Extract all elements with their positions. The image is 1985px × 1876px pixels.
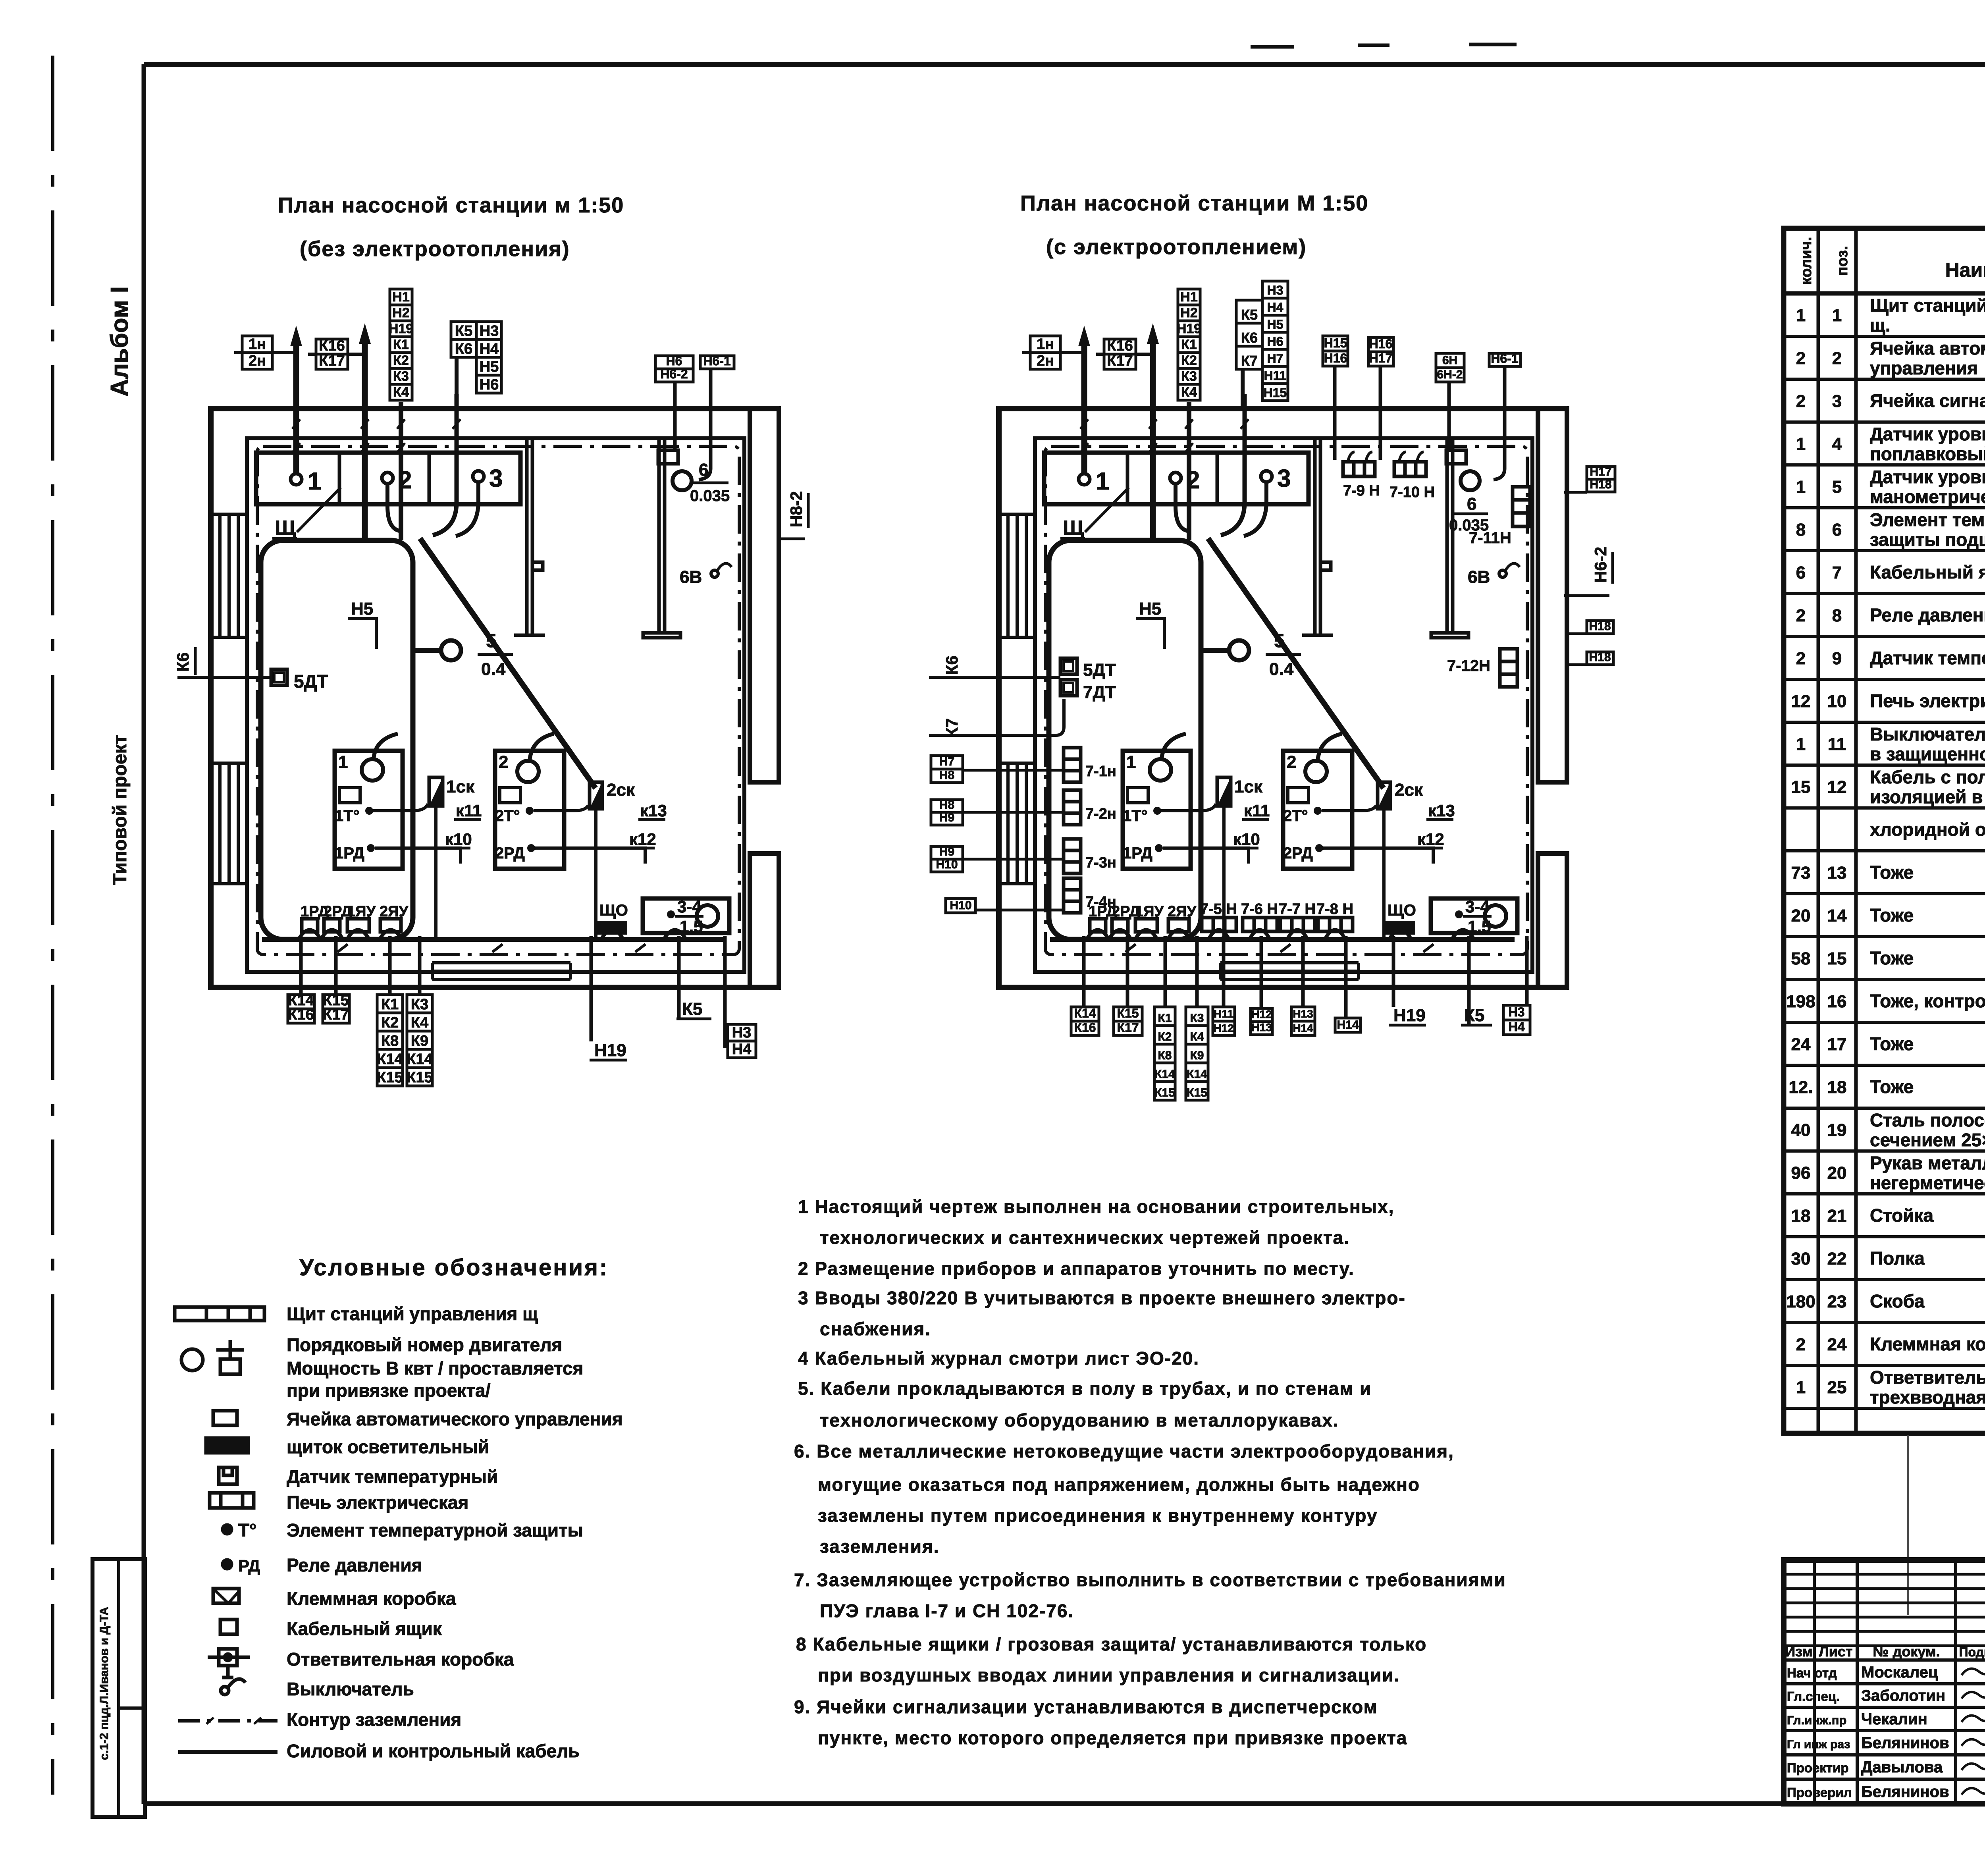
svg-text:14: 14 [1827,906,1847,925]
svg-text:5ДТ: 5ДТ [294,671,328,692]
svg-text:Чекалин: Чекалин [1861,1710,1927,1728]
svg-text:К6: К6 [942,656,961,675]
svg-text:заземлены путем присоединени: заземлены путем присоединения к внутренн… [818,1505,1378,1526]
svg-text:Н12: Н12 [1213,1022,1233,1034]
svg-text:Гл.инж.пр: Гл.инж.пр [1787,1713,1846,1727]
svg-text:Н18: Н18 [1589,620,1611,633]
svg-text:Изм: Изм [1785,1643,1813,1660]
svg-text:(с электроотоплением): (с электроотоплением) [1046,235,1307,259]
svg-text:технологических и сантехничес: технологических и сантехнических чертеже… [820,1227,1350,1248]
svg-text:К6: К6 [1241,330,1258,346]
svg-text:12.: 12. [1788,1078,1813,1097]
svg-text:К15: К15 [377,1069,403,1086]
bottom stack K3-K15 [407,995,432,1013]
svg-text:Датчик температурный: Датчик температурный [287,1466,498,1487]
svg-text:План насосной станции м 1:50: План насосной станции м 1:50 [278,193,624,217]
svg-text:К9: К9 [411,1033,428,1049]
svg-text:Условные обозначения:: Условные обозначения: [299,1255,609,1280]
svg-text:2: 2 [1796,649,1806,668]
heater 7-12H [1500,649,1517,687]
svg-text:План насосной станции М 1:50: План насосной станции М 1:50 [1020,191,1368,215]
svg-text:Н4: Н4 [1267,300,1284,314]
svg-text:ПУЭ глава I-7 и СН 102-76: ПУЭ глава I-7 и СН 102-76. [820,1600,1074,1621]
heater 7-10H [1394,452,1426,476]
svg-text:2: 2 [1796,606,1806,625]
svg-text:13: 13 [1827,863,1847,883]
svg-text:К14: К14 [377,1051,403,1068]
svg-text:К14: К14 [407,1051,432,1068]
svg-text:Тоже: Тоже [1870,905,1914,925]
svg-text:4 Кабельный журнал смотри л: 4 Кабельный журнал смотри лист ЭО-20. [798,1348,1199,1369]
svg-text:Н13: Н13 [1293,1008,1313,1020]
svg-text:7: 7 [1832,563,1842,582]
svg-text:Мощность В квт / проставляет: Мощность В квт / проставляется [287,1358,583,1379]
svg-text:Лист: Лист [1819,1643,1852,1660]
stack K5K6K7 H3-H15 [1236,300,1262,323]
bottom stack K14K16 [288,995,314,1009]
svg-text:19: 19 [1827,1120,1847,1140]
svg-text:Выключатель: Выключатель [287,1679,414,1699]
svg-text:Гл.спец.: Гл.спец. [1787,1689,1840,1704]
svg-text:Силовой и контрольный кабе: Силовой и контрольный кабель [287,1741,580,1761]
svg-text:Н15: Н15 [1324,336,1347,350]
svg-text:пункте, место которого опред: пункте, место которого определяется при … [818,1728,1407,1748]
left margin dash line [51,56,54,1795]
bottom stack K1-K15 [377,995,403,1013]
svg-text:Контур заземления: Контур заземления [287,1709,461,1730]
svg-text:Тоже: Тоже [1870,948,1914,968]
svg-text:К3: К3 [411,996,428,1013]
svg-text:негерметический: негерметический [1870,1172,1985,1193]
svg-text:Ячейка сигнализации: Ячейка сигнализации [1870,390,1985,411]
svg-text:РД: РД [238,1556,260,1575]
svg-text:Сталь полосовая: Сталь полосовая [1870,1110,1985,1130]
svg-text:К5: К5 [455,323,472,339]
svg-text:5: 5 [1832,477,1842,497]
legend pressure relay [223,1560,231,1569]
svg-text:К5: К5 [1464,1006,1484,1025]
svg-text:Давылова: Давылова [1861,1758,1943,1776]
svg-text:Реле давления: Реле давления [1870,605,1985,625]
svg-text:с.1-2 пцд.Л.Иванов и Д-ТА: с.1-2 пцд.Л.Иванов и Д-ТА [98,1607,111,1760]
svg-text:7-7 Н: 7-7 Н [1279,901,1316,918]
svg-text:73: 73 [1791,863,1811,883]
stack H3H4 [728,1024,756,1041]
spec table grid [1784,228,1985,1433]
svg-text:Н11: Н11 [1214,1008,1233,1020]
svg-text:Н8: Н8 [939,798,954,812]
svg-text:К15: К15 [1117,1006,1139,1020]
svg-text:Заболотин: Заболотин [1861,1687,1945,1704]
svg-text:180: 180 [1786,1292,1815,1311]
right labels H17 H18 [1587,467,1615,479]
svg-text:96: 96 [1791,1163,1811,1183]
heater 7-9H [1343,452,1375,476]
svg-text:щиток осветительный: щиток осветительный [287,1436,489,1457]
bottom stacks [1071,1007,1099,1021]
svg-text:9. Ячейки сигнализации уста: 9. Ячейки сигнализации устанавливаются в… [794,1697,1378,1717]
svg-text:изоляцией в поливинил-: изоляцией в поливинил- [1870,787,1985,807]
stack K5K6 H3-H6 [451,322,476,339]
svg-text:К3: К3 [1190,1012,1204,1025]
svg-text:Н8: Н8 [939,769,954,782]
svg-text:3 Вводы 380/220 В учитываютс: 3 Вводы 380/220 В учитываются в проекте … [798,1288,1406,1308]
frame border left [142,64,146,1804]
svg-text:15: 15 [1827,949,1847,968]
svg-text:колич.: колич. [1798,237,1815,285]
svg-text:К6: К6 [455,341,472,357]
svg-text:Датчик уровня: Датчик уровня [1870,467,1985,487]
svg-text:трехвводная брызгонепроницаем: трехвводная брызгонепроницаемая [1870,1387,1985,1407]
legend branch box [208,1656,250,1659]
svg-text:Н3: Н3 [480,323,499,339]
svg-text:Н8-2: Н8-2 [787,491,806,527]
svg-text:10: 10 [1827,692,1847,711]
svg-text:7-10 Н: 7-10 Н [1389,484,1435,501]
svg-text:управления: управления [1870,358,1978,378]
svg-text:К15: К15 [407,1069,432,1086]
svg-text:снабжения.: снабжения. [820,1319,931,1339]
svg-text:23: 23 [1827,1292,1847,1311]
svg-text:К14: К14 [1187,1068,1207,1081]
svg-text:Н6-1: Н6-1 [703,354,730,368]
bottom heaters 7-5H..7-8H [1202,918,1236,931]
svg-text:Тоже: Тоже [1870,1033,1914,1054]
svg-text:7-6 Н: 7-6 Н [1241,901,1278,918]
svg-text:7-9 Н: 7-9 Н [1343,482,1380,499]
svg-text:Выключатель однополюсный: Выключатель однополюсный [1870,724,1985,744]
svg-text:Н16: Н16 [1324,351,1347,365]
svg-text:Проверил: Проверил [1787,1785,1852,1800]
svg-text:Н7: Н7 [939,755,954,768]
svg-text:2: 2 [1796,349,1806,368]
svg-text:3: 3 [1832,391,1842,411]
legend terminal box [213,1589,239,1603]
svg-text:поплавковый: поплавковый [1870,443,1985,464]
legend temp sensor [219,1467,237,1484]
svg-text:Н5: Н5 [1267,317,1284,332]
heater 7-11H [1513,487,1530,526]
svg-text:К8: К8 [1158,1049,1172,1062]
svg-text:Н6-2: Н6-2 [1591,547,1610,583]
svg-text:заземления.: заземления. [820,1536,940,1557]
svg-text:в защищенном исполнении: в защищенном исполнении [1870,744,1985,764]
svg-text:1: 1 [1832,306,1842,325]
svg-text:Ячейка автоматического управ: Ячейка автоматического управления [287,1409,623,1429]
svg-text:Ответвительная коробка: Ответвительная коробка [1870,1367,1985,1388]
svg-text:Н18: Н18 [1590,478,1611,491]
svg-text:Н4: Н4 [732,1041,752,1058]
svg-text:6. Все металлические нетоков: 6. Все металлические нетоковедущие части… [794,1441,1454,1461]
svg-text:К2: К2 [381,1014,399,1031]
svg-text:5ДТ: 5ДТ [1083,660,1116,680]
frame border top [144,62,1985,67]
svg-text:1: 1 [1796,477,1806,497]
svg-text:К15: К15 [1187,1086,1207,1099]
svg-text:К15: К15 [1154,1086,1175,1099]
svg-text:1: 1 [1796,306,1806,325]
svg-text:Тоже: Тоже [1870,1076,1914,1097]
svg-text:Н6: Н6 [666,354,682,368]
legend switch [221,1687,229,1695]
svg-text:2: 2 [1832,349,1842,368]
svg-text:Н13: Н13 [1251,1021,1272,1033]
svg-text:хлоридной оболочке: хлоридной оболочке [1870,819,1985,840]
svg-text:Рукав металлический: Рукав металлический [1870,1153,1985,1173]
svg-text:Н14: Н14 [1293,1022,1313,1034]
svg-text:8: 8 [1796,520,1806,540]
svg-text:Датчик температурный: Датчик температурный [1870,648,1985,668]
svg-text:Н7: Н7 [1267,351,1284,366]
legend cable box [220,1620,237,1634]
svg-text:Н5: Н5 [480,359,499,375]
svg-text:К16: К16 [1074,1020,1096,1035]
legend light panel [206,1438,248,1453]
svg-text:Тоже: Тоже [1870,862,1914,883]
svg-text:Н3: Н3 [1509,1005,1525,1019]
svg-text:Наименование: Наименование [1945,259,1985,281]
bottom stack K15K17 [323,995,349,1009]
legend panel symbol [175,1307,264,1321]
svg-text:Реле давления: Реле давления [287,1555,422,1575]
svg-text:24: 24 [1827,1335,1847,1354]
svg-text:Датчик уровня: Датчик уровня [1870,424,1985,444]
svg-text:К16: К16 [288,1006,314,1023]
svg-text:К14: К14 [1154,1068,1175,1081]
svg-text:технологическому оборудованию: технологическому оборудованию в металлор… [820,1410,1339,1431]
svg-text:№ докум.: № докум. [1873,1643,1940,1660]
labels 6H 6H-2 H6-1 [1436,353,1464,368]
svg-text:Н3: Н3 [1267,283,1284,297]
svg-text:21: 21 [1827,1206,1847,1226]
svg-text:2 Размещение приборов и апп: 2 Размещение приборов и аппаратов уточни… [798,1258,1355,1279]
svg-text:6: 6 [1796,563,1806,582]
title block frame [1784,1560,1985,1804]
svg-text:5. Кабели прокладываются в п: 5. Кабели прокладываются в полу в трубах… [798,1378,1372,1399]
svg-text:К7: К7 [1241,353,1258,369]
stacks H15H16 H16H17 [1323,336,1348,351]
svg-text:20: 20 [1827,1163,1847,1183]
svg-text:К4: К4 [411,1014,428,1031]
svg-text:7-8 Н: 7-8 Н [1316,901,1353,918]
svg-text:2: 2 [1796,1335,1806,1354]
svg-text:Н15: Н15 [1264,386,1287,400]
svg-text:24: 24 [1791,1035,1811,1054]
legend auto cell [213,1411,237,1425]
svg-text:Тоже, контрольный: Тоже, контрольный [1870,991,1985,1011]
left small stamp table [93,1559,145,1817]
svg-text:20: 20 [1791,906,1811,925]
svg-text:Н9: Н9 [939,811,954,824]
svg-text:сечением 25×4: сечением 25×4 [1870,1130,1985,1150]
legend temp protection [223,1525,231,1534]
svg-text:Полка: Полка [1870,1248,1925,1269]
left boxed labels [931,756,963,769]
labels H6 H6-2 H6-1 [655,356,693,369]
labels H18 [1587,621,1613,634]
svg-text:7-5 Н: 7-5 Н [1200,901,1237,918]
svg-text:Н12: Н12 [1251,1008,1272,1020]
svg-text:К17: К17 [1117,1020,1139,1035]
svg-text:1: 1 [1796,735,1806,754]
svg-text:2: 2 [1796,391,1806,411]
svg-text:7-11Н: 7-11Н [1469,529,1511,547]
svg-text:Кабель с поливинилхлоридной: Кабель с поливинилхлоридной [1870,767,1985,787]
svg-text:8 Кабельные ящики / грозовая: 8 Кабельные ящики / грозовая защита/ уст… [796,1634,1427,1654]
svg-text:25: 25 [1827,1378,1847,1397]
svg-text:К5: К5 [1241,307,1258,323]
svg-text:Н3: Н3 [732,1024,752,1041]
svg-text:Проектир: Проектир [1787,1760,1849,1775]
svg-text:Н18: Н18 [1589,651,1611,664]
svg-text:1: 1 [1796,1378,1806,1397]
svg-text:Щит станций управления щ: Щит станций управления щ [287,1303,538,1324]
svg-text:Н4: Н4 [1509,1020,1525,1034]
svg-text:7-1н: 7-1н [1085,763,1116,780]
svg-text:Н11: Н11 [1264,368,1287,383]
svg-text:7-4н: 7-4н [1085,894,1116,910]
svg-text:К5: К5 [682,999,702,1019]
svg-text:Белянинов: Белянинов [1861,1734,1949,1752]
svg-text:К17: К17 [323,1006,349,1023]
svg-text:Н17: Н17 [1590,465,1611,478]
svg-text:Ячейка автоматического: Ячейка автоматического [1870,338,1985,359]
legend furnace [210,1493,254,1508]
svg-text:Клеммная коробка: Клеммная коробка [287,1588,456,1609]
svg-text:1 Настоящий чертеж выполнен: 1 Настоящий чертеж выполнен на основании… [798,1196,1394,1217]
svg-text:Гл инж раз: Гл инж раз [1787,1738,1850,1751]
svg-text:Н16: Н16 [1369,337,1393,351]
svg-text:К9: К9 [1190,1049,1204,1062]
svg-text:8: 8 [1832,606,1842,625]
svg-text:могущие оказаться под напря: могущие оказаться под напряжением, должн… [818,1474,1420,1495]
svg-text:Н6: Н6 [1267,334,1284,349]
svg-text:18: 18 [1827,1078,1847,1097]
svg-text:К6: К6 [173,652,192,672]
svg-text:Н6: Н6 [480,376,499,393]
sensors 5DT 7DT [1060,658,1077,696]
svg-text:18: 18 [1791,1206,1811,1226]
svg-text:Элемент температурной: Элемент температурной [1870,509,1985,530]
svg-text:12: 12 [1827,777,1847,797]
svg-text:6Н-2: 6Н-2 [1437,368,1463,381]
svg-text:К1: К1 [1158,1012,1172,1025]
svg-text:Ответвительная коробка: Ответвительная коробка [287,1649,514,1670]
svg-text:Н14: Н14 [1337,1018,1359,1032]
svg-text:Белянинов: Белянинов [1861,1783,1949,1801]
frame border bottom [144,1801,1985,1806]
svg-text:Печь электрическая: Печь электрическая [1870,690,1985,711]
wall heaters 7-1H..7-4H [1064,748,1081,782]
svg-text:9: 9 [1832,649,1842,668]
svg-text:1: 1 [1796,434,1806,454]
svg-text:Стойка: Стойка [1870,1205,1934,1226]
svg-text:Нач отд: Нач отд [1787,1666,1837,1680]
svg-text:щ.: щ. [1870,315,1891,335]
svg-text:Типовой проект: Типовой проект [110,735,131,885]
svg-text:Скоба: Скоба [1870,1291,1925,1311]
svg-text:Н4: Н4 [480,341,499,357]
svg-text:7-3н: 7-3н [1085,854,1116,871]
svg-text:6: 6 [1832,520,1842,540]
svg-text:Кабельный ящик: Кабельный ящик [1870,562,1985,582]
svg-text:Н6-2: Н6-2 [660,367,688,381]
svg-text:0.035: 0.035 [690,487,730,505]
svg-text:Альбом I: Альбом I [106,286,133,397]
svg-text:Клеммная коробка: Клеммная коробка [1870,1334,1985,1354]
svg-text:58: 58 [1791,949,1811,968]
svg-text:Н9: Н9 [939,845,954,858]
legend cable line [178,1750,278,1754]
svg-text:22: 22 [1827,1249,1847,1269]
bottom cable drops [301,936,725,1048]
svg-text:7-2н: 7-2н [1085,806,1116,822]
svg-text:16: 16 [1827,992,1847,1011]
svg-text:К2: К2 [1158,1030,1172,1043]
svg-text:Т°: Т° [238,1520,257,1541]
svg-text:Н10: Н10 [950,899,971,912]
svg-text:7. Заземляющее устройство вы: 7. Заземляющее устройство выполнить в со… [794,1569,1506,1590]
svg-text:Щит станций управления: Щит станций управления [1870,295,1985,316]
svg-text:Порядковый номер двигателя: Порядковый номер двигателя [287,1334,562,1355]
svg-text:Кабельный ящик: Кабельный ящик [287,1618,442,1639]
svg-text:защиты подшипников: защиты подшипников [1870,529,1985,550]
svg-text:4: 4 [1832,434,1842,454]
svg-text:К1: К1 [381,996,399,1013]
bottom cable drops [1084,936,1527,1024]
svg-text:Н19: Н19 [1393,1006,1426,1025]
svg-text:12: 12 [1791,692,1811,711]
svg-text:К4: К4 [1190,1030,1204,1043]
svg-text:поз.: поз. [1834,246,1851,276]
legend ground line [178,1719,278,1723]
svg-text:15: 15 [1791,777,1811,797]
svg-text:К14: К14 [1074,1006,1096,1020]
svg-text:17: 17 [1827,1035,1847,1054]
svg-text:манометрический: манометрический [1870,486,1985,507]
svg-text:11: 11 [1828,735,1846,754]
svg-text:6Н: 6Н [1442,354,1457,367]
svg-text:7ДТ: 7ДТ [1083,683,1116,702]
svg-text:40: 40 [1791,1120,1811,1140]
svg-text:6: 6 [1467,494,1476,514]
svg-text:7-12Н: 7-12Н [1447,657,1490,675]
svg-text:Н10: Н10 [936,858,958,871]
svg-text:198: 198 [1786,992,1815,1011]
svg-text:при воздушных вводах линии: при воздушных вводах линии управления и … [818,1665,1400,1685]
svg-text:Москалец: Москалец [1861,1664,1938,1681]
svg-text:Н6-1: Н6-1 [1491,351,1518,366]
sensor 5DT [271,669,287,685]
scan fold line [1907,1435,1909,1615]
svg-text:30: 30 [1791,1249,1811,1269]
svg-text:Элемент температурной защиты: Элемент температурной защиты [287,1520,583,1541]
svg-text:Печь электрическая: Печь электрическая [287,1492,468,1513]
svg-text:Н19: Н19 [594,1041,626,1060]
svg-text:К8: К8 [381,1033,399,1049]
svg-text:Подпись: Подпись [1959,1645,1985,1659]
svg-text:(без электроотопления): (без электроотопления) [300,237,570,261]
svg-text:Н17: Н17 [1369,351,1393,365]
legend motor symbol [181,1349,203,1371]
svg-text:при привязке проекта/: при привязке проекта/ [287,1380,491,1401]
